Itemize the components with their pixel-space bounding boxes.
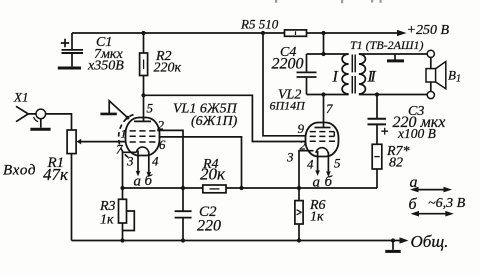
svg-text:Общ.: Общ.: [411, 232, 449, 251]
svg-text:4: 4: [307, 157, 314, 172]
tube VL1 anode plate: [134, 120, 151, 122]
label C3 value: [393, 104, 446, 141]
svg-text:R5 510: R5 510: [240, 17, 279, 32]
wire rail to primary top: [323, 33, 325, 54]
node junction rail/primary: [321, 31, 325, 35]
svg-text:7: 7: [116, 142, 123, 157]
ground (common): [385, 241, 400, 252]
svg-text:6П14П: 6П14П: [270, 99, 307, 113]
connector X1: [16, 106, 46, 127]
node VL1 anode junction: [141, 93, 145, 97]
svg-text:б: б: [409, 196, 418, 213]
svg-text:+250 В: +250 В: [407, 23, 450, 38]
svg-text:1к: 1к: [100, 213, 114, 228]
svg-text:20к: 20к: [200, 165, 226, 184]
tube VL2 heater pins 4 5: [315, 151, 330, 177]
svg-text:220к: 220к: [154, 61, 182, 76]
node heater terminal a: [410, 187, 452, 193]
wire secondary bottom lead: [359, 94, 427, 96]
node junction C4 bottom: [321, 92, 325, 96]
svg-text:б: б: [325, 174, 333, 190]
svg-text:220: 220: [197, 218, 221, 235]
node faint print remnants top edge: [275, 0, 382, 3]
capacitor C2: [175, 188, 192, 241]
node junction C3/secondary: [375, 92, 379, 96]
svg-text:X1: X1: [13, 90, 28, 105]
svg-text:4: 4: [152, 154, 159, 169]
potentiometer R1: [67, 130, 126, 241]
tube VL2 cathode: [316, 148, 328, 153]
label VL2 type: [270, 88, 307, 113]
label C2 value: [197, 204, 221, 235]
svg-text:Вход: Вход: [3, 163, 36, 179]
resistor R3: [119, 188, 135, 241]
ground (shield flag): [100, 101, 129, 120]
capacitor C1: [61, 33, 83, 66]
svg-text:3: 3: [286, 150, 294, 165]
tube VL2 grids: [310, 132, 335, 142]
tube VL2 envelope: [306, 123, 339, 157]
svg-text:х350В: х350В: [87, 59, 124, 74]
svg-text:2200: 2200: [272, 56, 304, 73]
wire common rail bottom: [72, 240, 394, 242]
node junction rail/screen: [261, 31, 265, 35]
speaker B1: [426, 50, 446, 98]
svg-text:(6Ж1П): (6Ж1П): [191, 114, 238, 129]
svg-text:47к: 47к: [43, 165, 69, 184]
wire VL1 pin6 drop: [159, 137, 242, 188]
svg-text:~6,3 В: ~6,3 В: [428, 196, 466, 211]
tube VL1 envelope: [126, 118, 160, 156]
tube VL1 cathode: [123, 147, 149, 188]
svg-text:82: 82: [389, 156, 403, 171]
resistor R7: [372, 144, 382, 188]
svg-text:Т1 (ТВ-2АШ1): Т1 (ТВ-2АШ1): [350, 38, 424, 52]
wire VL1 pin2 to C2: [157, 130, 183, 188]
label C4 value: [272, 45, 304, 73]
node junction rail/R2: [141, 31, 145, 35]
resistor R5: [285, 30, 307, 36]
svg-text:I: I: [332, 69, 339, 86]
node junction pin6/bus: [239, 186, 243, 190]
label R7 value: [386, 144, 410, 171]
capacitor C4: [297, 54, 317, 95]
svg-text:1к: 1к: [310, 210, 324, 225]
svg-text:х100 В: х100 В: [397, 126, 436, 141]
wire cathode bus y188: [123, 187, 378, 189]
svg-text:а: а: [410, 174, 418, 191]
label R4 value: [200, 157, 226, 184]
transformer T1 primary I: [342, 54, 349, 94]
tube VL1 grids: [130, 131, 156, 142]
svg-text:2: 2: [300, 138, 307, 153]
transformer T1 core: [352, 55, 355, 94]
node junction R6/cathode: [297, 186, 301, 190]
node junction R6/rail: [297, 238, 301, 242]
svg-text:б: б: [145, 173, 153, 189]
transformer T1 secondary II: [359, 54, 366, 94]
tube VL1 heater pins 3 4: [136, 151, 151, 178]
label VL1 type: [173, 102, 238, 130]
wire +250V top rail: [72, 32, 397, 34]
label R2 value: [154, 49, 182, 76]
tube VL2 anode plate: [315, 127, 331, 129]
svg-text:6: 6: [159, 137, 166, 152]
svg-text:а: а: [134, 174, 142, 190]
ground (C1): [58, 67, 81, 70]
wire X1 to R1: [45, 114, 71, 130]
resistor R2: [140, 33, 148, 121]
node Общ arrow: [393, 237, 409, 243]
node junction C2: [181, 186, 185, 190]
node junction R3/rail: [120, 238, 124, 242]
capacitor C3: [368, 95, 389, 145]
svg-text:5: 5: [147, 101, 154, 116]
node +250 В supply arrow: [397, 30, 407, 36]
resistor R6: [295, 188, 303, 241]
label R1 value: [43, 155, 69, 184]
wire primary bottom lead: [307, 94, 349, 96]
svg-text:а: а: [313, 175, 321, 191]
svg-text:2: 2: [158, 118, 165, 133]
ground (X1): [30, 128, 50, 131]
svg-text:9: 9: [298, 121, 305, 136]
wire VL2 cathode pin3: [299, 151, 314, 188]
svg-text:5: 5: [334, 156, 341, 171]
wire primary top lead: [307, 53, 349, 55]
node junction C2/rail: [181, 238, 185, 242]
resistor R4: [203, 185, 226, 193]
node heater terminal b: [411, 211, 454, 217]
wire VL2 screen grid pin9: [263, 33, 306, 136]
svg-text:1: 1: [121, 127, 127, 141]
node junction R3/pin7: [120, 186, 124, 190]
svg-text:7: 7: [326, 101, 333, 116]
wire secondary top lead: [359, 53, 427, 55]
label C1 value: [87, 35, 124, 74]
ground (secondary): [387, 54, 404, 61]
svg-text:3: 3: [126, 154, 134, 169]
node junction C4 top: [321, 52, 325, 56]
label R6 value: [309, 198, 326, 225]
wire VL2 anode pin7: [323, 95, 325, 128]
tube VL1 shield arc: [119, 115, 134, 159]
node junction ground/rail: [391, 238, 395, 242]
wire anode VL1 to grid VL2: [144, 95, 306, 141]
label R3 value: [99, 199, 116, 228]
